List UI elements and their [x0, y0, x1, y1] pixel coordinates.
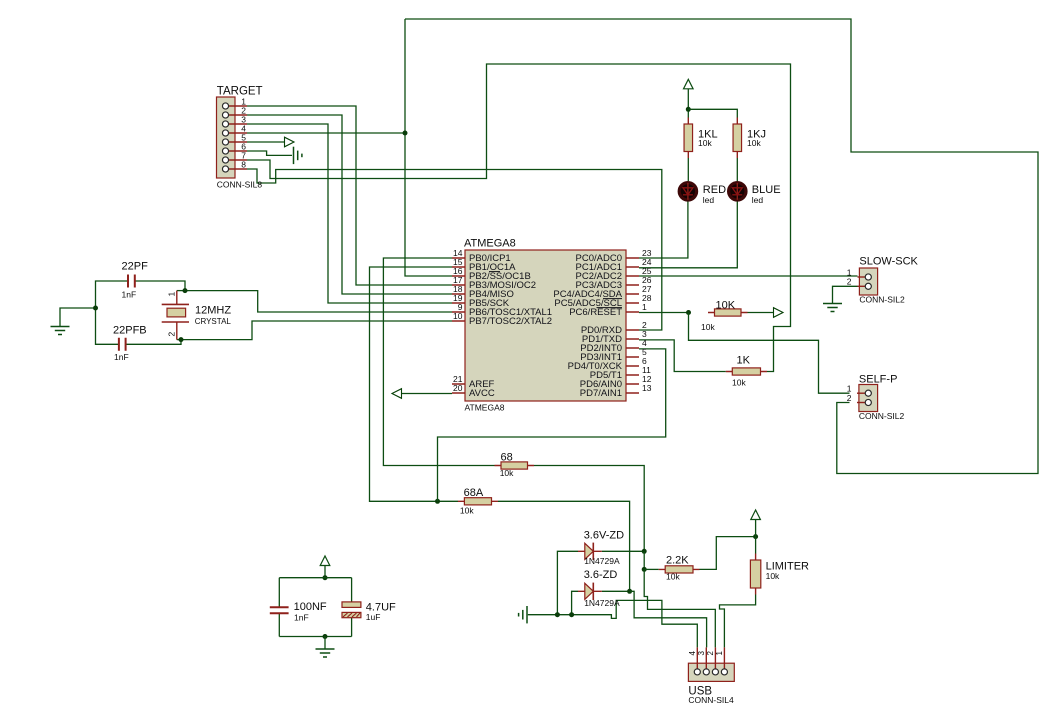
wire TARGET pin6 to ground [247, 151, 292, 155]
connector J4 USB CONN-SIL4 [688, 647, 734, 705]
wire PD1/TXD to 1K left [639, 340, 726, 372]
zener diode D3 3.6V-ZD 1N4729A [578, 530, 624, 567]
capacitor 4.7UF 1uF polarized [342, 602, 396, 623]
pin numbers ATMEGA8 right [642, 248, 652, 393]
pin numbers USB 4 3 2 1 [688, 651, 724, 656]
ground at SLOW-SCK [823, 304, 842, 312]
svg-text:10k: 10k [766, 571, 780, 581]
wire 22PF right to crystal top node [135, 281, 185, 291]
pin numbers SELF-P [847, 384, 852, 403]
wire ground branch at crystal [60, 308, 96, 327]
svg-text:10: 10 [453, 311, 463, 321]
svg-text:CONN-SIL2: CONN-SIL2 [859, 295, 905, 305]
power arrow at decoupling caps [320, 556, 330, 566]
ground at TARGET pin6 [294, 147, 302, 164]
junction 68 / 3.6V-ZD node [642, 549, 647, 554]
svg-text:2: 2 [167, 332, 177, 337]
svg-text:led: led [752, 195, 764, 205]
svg-text:led: led [703, 195, 715, 205]
wire power to LIMITER top [755, 520, 757, 554]
wire D- net: TARGET pin7 loop to 1K and BLUE LED branch [247, 64, 791, 372]
arrow terminal at AVCC [392, 389, 402, 399]
power arrow at LIMITER [751, 510, 761, 520]
pin numbers SLOW-SCK [847, 267, 852, 286]
wire 3.6V-ZD anode to ground [557, 551, 578, 614]
svg-text:68A: 68A [464, 487, 484, 499]
svg-text:10K: 10K [716, 300, 736, 312]
junction ground / 3.6V-ZD anode [555, 612, 560, 617]
svg-text:10k: 10k [747, 138, 761, 148]
wire PD2/INT0 to 68A node [438, 349, 666, 501]
wire 10K right to arrow [748, 312, 774, 314]
wire AVCC to arrow [402, 393, 453, 395]
junction crystal top node [183, 288, 188, 293]
svg-text:68: 68 [501, 452, 513, 464]
wire 1KL bottom to RED LED [687, 158, 689, 181]
svg-text:100NF: 100NF [294, 601, 327, 613]
connector J2 SLOW-SCK CONN-SIL2 [858, 256, 919, 305]
wire 3.6-ZD cathode to node [602, 590, 630, 592]
junction crystal ground node [93, 306, 98, 311]
wire 4.7UF top lead [351, 578, 353, 602]
wire 4.7UF bottom lead [351, 618, 353, 637]
wire RESET net top loop to SELF-P pin2 [405, 19, 1038, 474]
svg-text:4: 4 [688, 651, 697, 656]
junction 2.2K left node [642, 567, 647, 572]
svg-text:PB7/TOSC2/XTAL2: PB7/TOSC2/XTAL2 [469, 316, 552, 327]
svg-text:1: 1 [167, 292, 177, 297]
svg-text:1nF: 1nF [294, 613, 309, 623]
junction RESET / 10K node [686, 310, 691, 315]
svg-text:AVCC: AVCC [469, 388, 495, 399]
svg-text:SELF-P: SELF-P [859, 374, 898, 386]
wire D- node to USB pin2 [644, 569, 715, 647]
svg-text:12MHZ: 12MHZ [195, 305, 231, 317]
arrow terminal at TARGET pin5 [285, 137, 295, 147]
svg-text:10k: 10k [732, 378, 746, 388]
pin names ATMEGA8 left [469, 253, 552, 399]
svg-text:1: 1 [642, 302, 647, 312]
resistor R2 1K [726, 355, 767, 388]
svg-text:1N4729A: 1N4729A [584, 556, 620, 566]
svg-text:1nF: 1nF [114, 352, 129, 362]
wire 68A right to zener2 node [498, 501, 630, 591]
svg-text:2.2K: 2.2K [666, 555, 689, 567]
junction ground / 3.6-ZD anode [569, 612, 574, 617]
svg-text:13: 13 [642, 383, 652, 393]
svg-text:3.6V-ZD: 3.6V-ZD [584, 530, 624, 542]
wire 22PF left to ground node [96, 281, 129, 344]
zener diode D4 3.6-ZD 1N4729A [578, 569, 620, 608]
pin stubs ATMEGA8 right [626, 258, 639, 393]
svg-text:PC6/RESET: PC6/RESET [569, 307, 622, 318]
svg-text:20: 20 [453, 383, 463, 393]
ground at USB [519, 606, 527, 623]
resistor R3 68 [495, 452, 535, 479]
junction crystal bottom node [179, 337, 184, 342]
svg-text:3: 3 [697, 651, 706, 656]
junction LIMITER top node [753, 534, 758, 539]
svg-text:PD7/AIN1: PD7/AIN1 [580, 388, 622, 399]
wire TARGET pin5 to arrow [247, 141, 285, 143]
svg-text:2: 2 [847, 393, 852, 403]
svg-text:2: 2 [706, 651, 715, 656]
svg-text:10k: 10k [698, 138, 712, 148]
wire BLUE LED to PC1/ADC1 [639, 202, 737, 268]
wire cap top rail [279, 577, 351, 579]
wire TARGET pin8 / PD0-RXD / PC0 net [247, 169, 662, 330]
wire 2.2K right to LIMITER top node [700, 537, 756, 570]
svg-text:3.6-ZD: 3.6-ZD [584, 569, 618, 581]
wire power stem to cap top rail [324, 566, 326, 578]
capacitor 22PF 1nF [122, 261, 149, 300]
svg-text:10k: 10k [701, 322, 715, 332]
wire supply node to 1KJ top [688, 109, 737, 117]
resistor 1KJ 10k [733, 118, 766, 159]
svg-text:1K: 1K [737, 355, 751, 367]
wire 1KJ bottom to BLUE LED [736, 158, 738, 181]
wire cap bottom rail [279, 636, 351, 638]
wire zener node down to 2.2K node [643, 551, 645, 569]
wire 2.2K left stub wire [644, 568, 659, 570]
svg-text:CRYSTAL: CRYSTAL [195, 317, 232, 326]
svg-text:1: 1 [715, 651, 724, 656]
capacitor 22PFB 1nF [113, 325, 147, 363]
wire D+ node to USB pin3 [630, 591, 707, 647]
IC U1 ATMEGA8 body [464, 238, 626, 413]
svg-text:ATMEGA8: ATMEGA8 [464, 238, 516, 250]
resistor R1 10K (reset pullup) [701, 300, 748, 333]
connector J1 TARGET CONN-SIL8 [217, 86, 263, 190]
svg-text:CONN-SIL4: CONN-SIL4 [688, 695, 734, 705]
wire ground rail to USB pin4 [528, 600, 698, 647]
wire SLOW-SCK pin2 to ground [833, 286, 858, 303]
svg-text:1N4729A: 1N4729A [584, 598, 620, 608]
power arrow at LED resistors [684, 79, 694, 89]
wire crystal pin1 link [177, 290, 185, 292]
wire XTAL2: crystal node to PB7 [181, 321, 452, 340]
crystal X1 12MHZ [162, 291, 232, 340]
junction cap top rail [323, 575, 328, 580]
wire ground stem at caps [324, 637, 326, 650]
svg-text:8: 8 [241, 159, 246, 169]
svg-text:TARGET: TARGET [217, 86, 263, 98]
wire PC2/ADC2 to SLOW-SCK pin1 [639, 275, 858, 277]
wire MOSI: TARGET pin1 to PB3/MOSI [247, 106, 452, 285]
connector J3 SELF-P CONN-SIL2 [857, 374, 905, 422]
svg-text:1nF: 1nF [122, 290, 137, 300]
pin stubs ATMEGA8 left [452, 258, 465, 393]
wire PB0 to 68 resistor [383, 258, 494, 466]
LED D2 BLUE [729, 183, 781, 205]
svg-text:ATMEGA8: ATMEGA8 [465, 403, 505, 413]
wire 22PFB right to crystal bottom node [126, 340, 181, 345]
resistor R6 LIMITER 10k [750, 554, 809, 595]
wire RESET node to SELF-P pin1 [689, 313, 850, 394]
wire PB1 to 68A node [370, 267, 459, 501]
pin numbers ATMEGA8 left [453, 248, 463, 393]
wire power to 1KL top [687, 89, 689, 118]
wire 3.6-ZD anode to ground [572, 591, 578, 614]
svg-text:CONN-SIL2: CONN-SIL2 [859, 411, 905, 421]
wire 68 right to zener node [534, 466, 644, 552]
wire RED LED to PC0/ADC0 [639, 202, 688, 259]
svg-text:10k: 10k [666, 572, 680, 582]
ground at decoupling caps [316, 649, 335, 657]
wire XTAL1: crystal node to PB6 [185, 291, 452, 312]
svg-text:22PF: 22PF [122, 261, 149, 273]
wire crystal pin2 link [177, 339, 181, 341]
svg-text:10k: 10k [460, 506, 474, 516]
wire SCK: TARGET pin3 to PB5/SCK [247, 124, 452, 303]
arrow terminal at 10K [774, 308, 784, 318]
ground at crystal caps [51, 327, 70, 335]
wire LIMITER bottom to USB pin1 [720, 595, 756, 648]
svg-text:10k: 10k [500, 468, 514, 478]
wire RESET: TARGET pin4 stub to node [247, 132, 405, 134]
pin names ATMEGA8 right [553, 253, 622, 399]
junction TARGET pin4 / RESET vertical [403, 131, 408, 136]
svg-text:2: 2 [847, 277, 852, 287]
svg-text:SLOW-SCK: SLOW-SCK [859, 256, 918, 268]
wire 100NF top lead [278, 578, 280, 607]
wire MISO: TARGET pin2 to PB4/MISO [247, 115, 452, 294]
svg-text:CONN-SIL8: CONN-SIL8 [217, 180, 263, 190]
junction 1KL/1KJ supply node [686, 107, 691, 112]
wire 100NF bottom lead [278, 614, 280, 637]
junction cap bottom rail [323, 634, 328, 639]
capacitor 100NF 1nF [270, 601, 327, 623]
wire RESET net vertical to PB2/SS [405, 19, 452, 276]
resistor R4 68A [458, 487, 498, 516]
wire 3.6V-ZD cathode to node [602, 550, 644, 552]
pin numbers TARGET 1-8 [241, 96, 246, 169]
resistor 1KL 10k [684, 118, 718, 159]
junction 68A left node [435, 499, 440, 504]
LED D1 RED [679, 183, 726, 205]
resistor R5 2.2K [659, 555, 700, 582]
svg-text:22PFB: 22PFB [113, 325, 147, 337]
junction 68A / 3.6-ZD node [627, 589, 632, 594]
svg-text:1uF: 1uF [366, 612, 381, 622]
wire PC6/RESET to node [639, 312, 689, 314]
